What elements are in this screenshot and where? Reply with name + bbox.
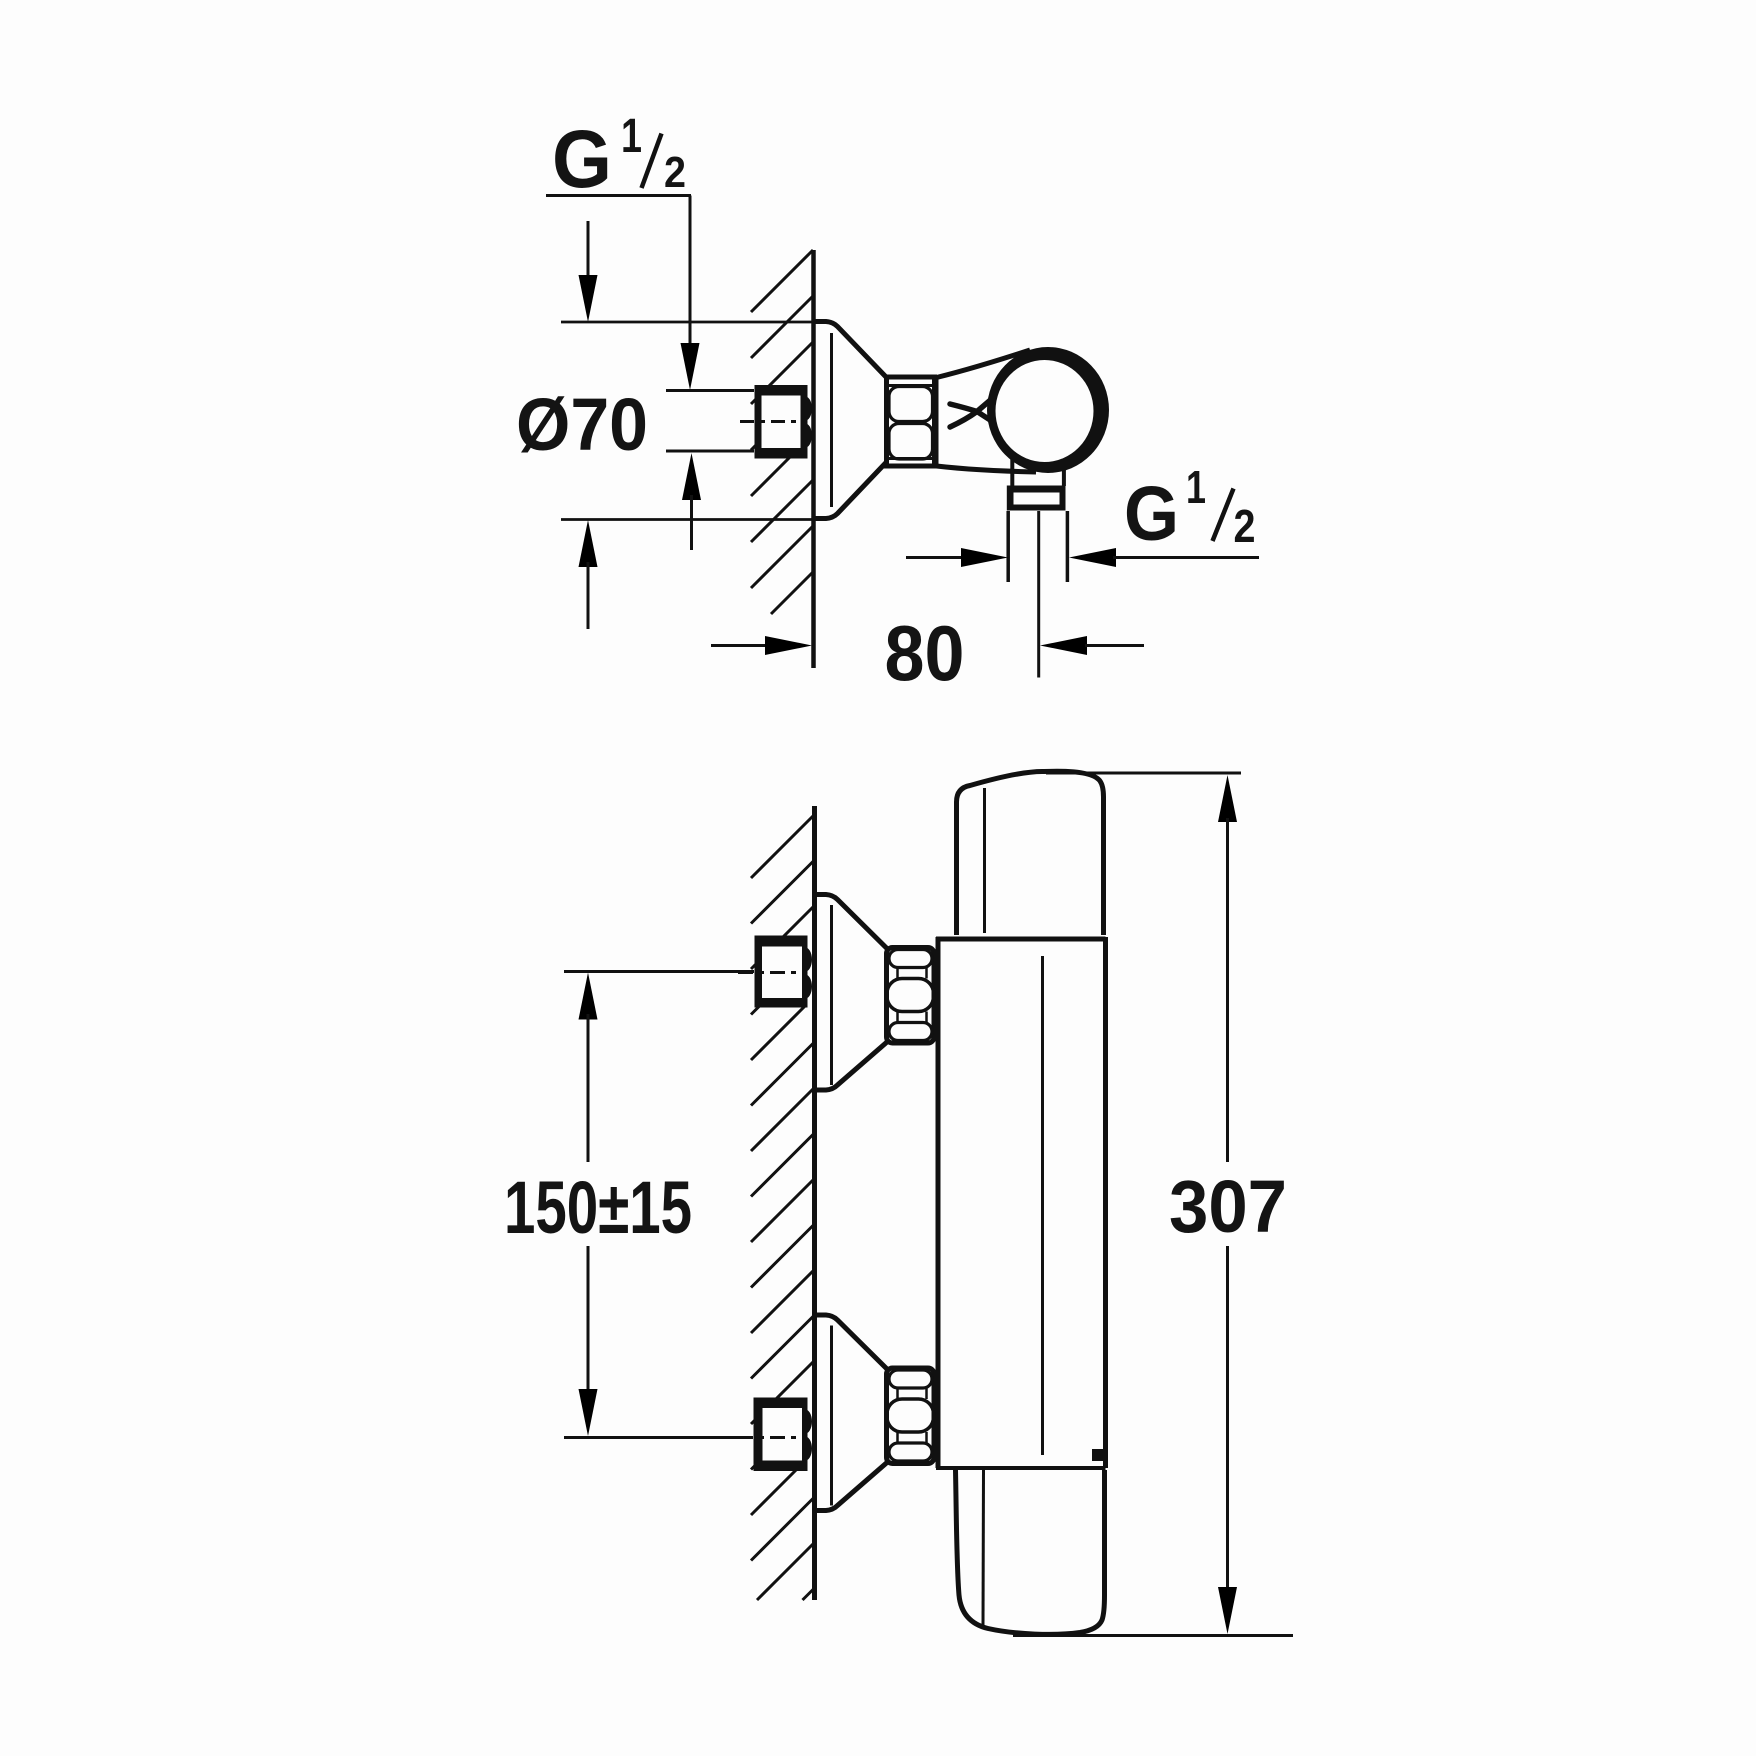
- svg-text:2: 2: [1234, 500, 1256, 552]
- svg-text:307: 307: [1169, 1165, 1287, 1248]
- svg-text:80: 80: [885, 609, 965, 697]
- svg-text:G: G: [552, 114, 612, 205]
- svg-text:G: G: [1124, 471, 1179, 557]
- svg-text:150±15: 150±15: [504, 1166, 692, 1249]
- svg-text:1: 1: [1186, 461, 1206, 513]
- svg-text:2: 2: [664, 148, 686, 197]
- svg-text:1: 1: [621, 110, 642, 163]
- svg-text:Ø70: Ø70: [516, 383, 648, 466]
